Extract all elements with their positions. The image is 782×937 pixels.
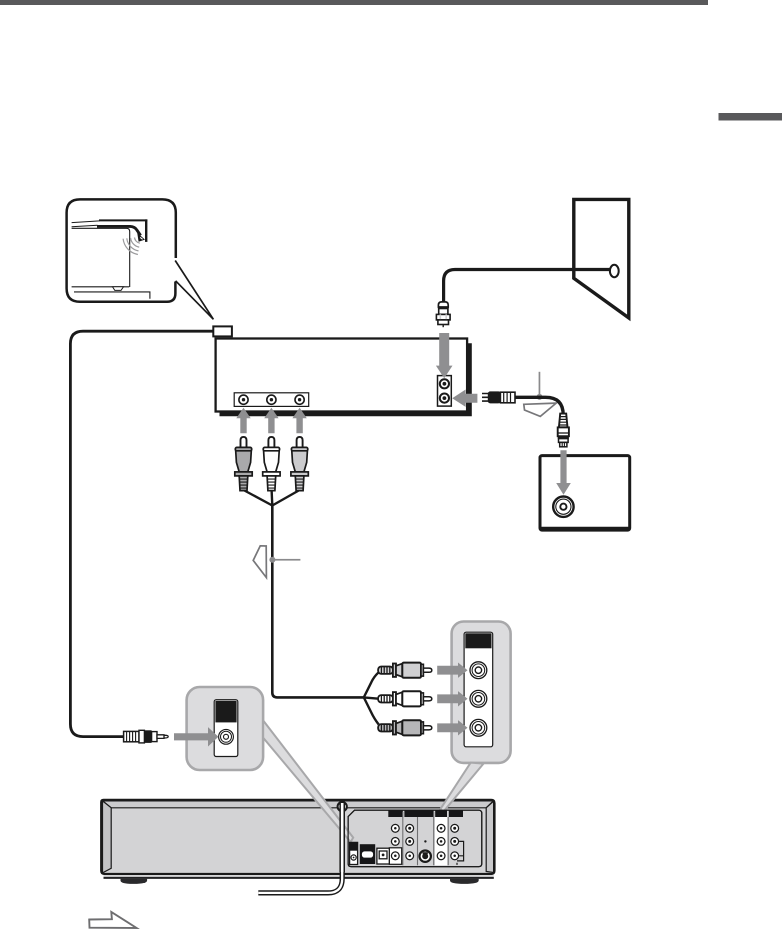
callout: TV bottom line and foot — [72, 286, 130, 288]
control-s cable through hole — [258, 802, 347, 893]
LINE IN audio R jack — [470, 719, 487, 736]
recess outline re-stroke — [348, 810, 482, 867]
wall plate — [574, 199, 629, 318]
arrow: aerial into VCR antenna-in — [436, 333, 453, 378]
rear: black label bars — [388, 810, 403, 817]
VCR antenna 2-jack panel — [438, 376, 452, 407]
wall antenna jack — [610, 265, 619, 277]
LINE IN video jack — [470, 662, 487, 679]
rear: tiny marker dot — [424, 840, 426, 842]
rear: s-video jack — [418, 849, 432, 863]
AV plug white (vertical, middle) — [263, 437, 280, 491]
cable box coax-in jack — [553, 497, 573, 517]
G-LINK closeup panel — [187, 687, 264, 770]
chapter tab — [719, 113, 782, 121]
push-on connector at cable box — [558, 414, 569, 447]
AV plug yellow (vertical, left) — [235, 437, 252, 491]
recorder feet — [121, 879, 148, 884]
continuation mark on coax cable — [524, 403, 556, 416]
rear: audio bracket — [457, 841, 464, 865]
AV plug red (horizontal) — [378, 720, 432, 735]
cable box — [540, 456, 630, 530]
G-LINK jack — [219, 729, 234, 744]
AV plug yellow (horizontal) — [378, 663, 432, 678]
callout: TV front outline — [72, 228, 130, 287]
AV plug white (horizontal) — [378, 691, 432, 706]
VCR rf-out jack — [440, 394, 449, 403]
callout: table edge — [74, 292, 150, 299]
rear: column separators — [403, 812, 448, 865]
arrow: coax into cable box — [556, 450, 571, 495]
continuation mark on AV cable — [253, 546, 266, 578]
recorder body (rear view) — [101, 800, 494, 878]
top face strip — [103, 801, 494, 808]
rear: HDMI connector — [360, 844, 375, 864]
callout tail — [175, 261, 213, 320]
cable hole grommet — [338, 802, 347, 811]
VCR box — [216, 339, 472, 417]
AV plug red (vertical, right) — [291, 437, 308, 491]
rear: component jacks grid — [391, 824, 458, 859]
pointer wedge from G-LINK panel to recorder — [263, 721, 353, 843]
rear: white line-in column — [435, 817, 447, 865]
AV cable branch to three plugs — [364, 672, 379, 724]
VCR antenna-in jack — [440, 379, 449, 388]
LINE IN audio L jack — [470, 690, 487, 707]
TV callout box — [67, 199, 176, 301]
rear: optical out — [377, 848, 389, 864]
arrow: coax into VCR rf jack — [452, 390, 477, 407]
callout: TV bezel corner — [99, 219, 147, 221]
callout: blaster cable lines — [72, 221, 100, 223]
AV cable: three cords merging into one — [244, 490, 300, 506]
arrow: mini plug into G-LINK jack — [174, 727, 218, 746]
left bevel — [103, 801, 112, 873]
callout: IR blaster head — [137, 233, 145, 242]
rear connector recess — [348, 810, 482, 867]
pointer wedge from LINE IN panel to recorder — [440, 763, 483, 812]
right bevel — [486, 801, 493, 872]
page-bottom continuation arrow — [89, 912, 136, 928]
callout: IR waves — [123, 238, 140, 255]
page top rule — [0, 0, 708, 5]
leader on AV cable — [269, 557, 275, 563]
mini plug on blaster wire — [124, 730, 169, 743]
coax cable to cable box — [515, 397, 563, 415]
IR blaster control unit on VCR — [213, 326, 232, 336]
F connector (aerial cable end) — [436, 302, 450, 327]
rear: white box around lower-left jack — [389, 848, 401, 865]
bottom thick edge — [104, 875, 494, 877]
LINE IN closeup panel — [452, 622, 511, 763]
VCR line-out 3-jack panel — [234, 393, 309, 407]
rear: control-s block — [350, 842, 358, 864]
arrows: AV plugs into LINE IN jacks — [437, 663, 467, 678]
arrows: AV plugs up into VCR jacks — [236, 408, 250, 434]
coax cable from wall to F connector — [444, 270, 611, 303]
VCR rf-out coax plug (horizontal) — [482, 391, 515, 403]
callout: blaster cable over TV top, bending down — [97, 226, 141, 235]
leader on coax cable — [537, 394, 543, 400]
IR blaster wire (from unit on VCR down left side to mini plug) — [70, 331, 215, 736]
